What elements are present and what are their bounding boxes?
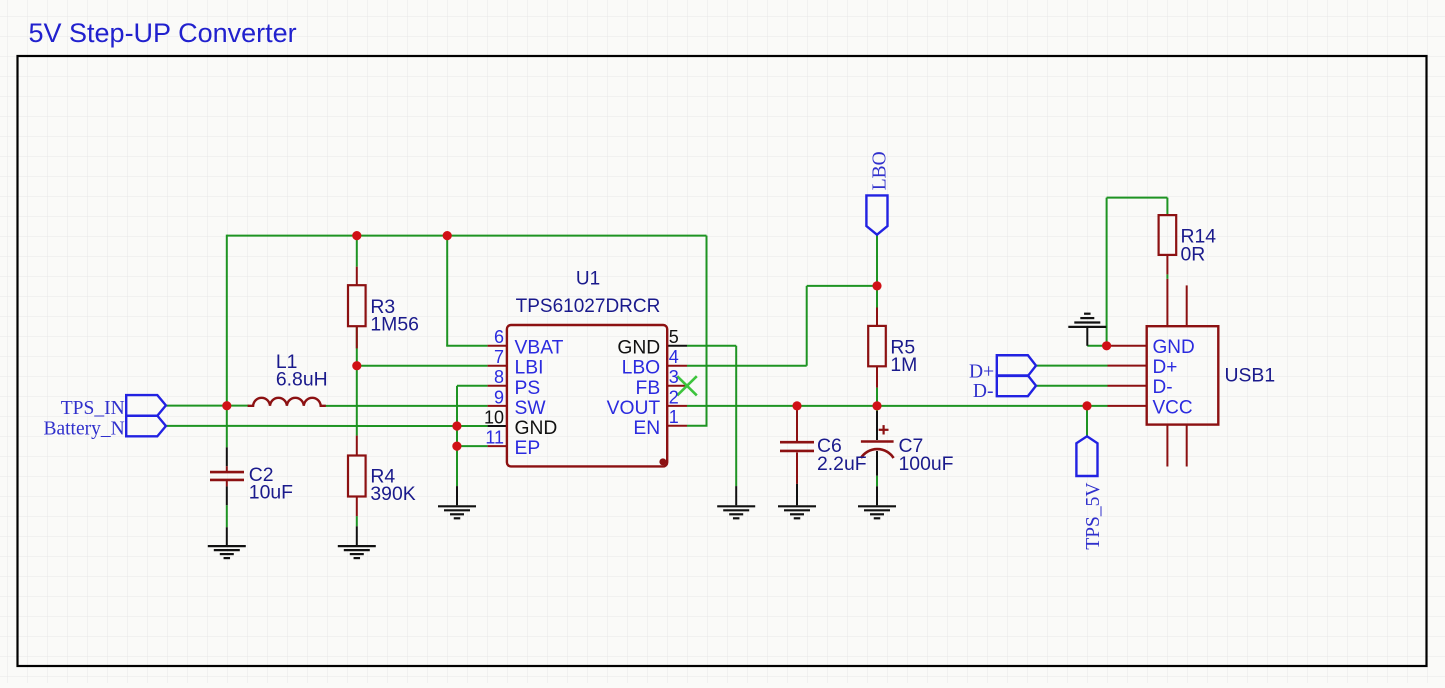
svg-text:11: 11 [485,428,504,448]
svg-text:2: 2 [669,387,679,407]
svg-text:LBI: LBI [515,358,544,379]
svg-text:Battery_N: Battery_N [43,419,124,440]
svg-text:PS: PS [515,378,541,399]
svg-text:5V Step-UP Converter: 5V Step-UP Converter [29,18,297,48]
svg-text:TPS_5V: TPS_5V [1083,483,1104,550]
svg-text:5: 5 [669,327,679,347]
svg-text:6.8uH: 6.8uH [276,369,328,391]
svg-text:100uF: 100uF [899,453,954,475]
svg-text:LBO: LBO [622,358,661,379]
svg-text:10uF: 10uF [249,482,293,504]
svg-text:TPS61027DRCR: TPS61027DRCR [516,296,661,317]
svg-text:SW: SW [515,398,547,419]
svg-text:EN: EN [633,418,660,439]
svg-text:8: 8 [494,367,504,387]
svg-text:390K: 390K [370,483,415,505]
svg-text:2.2uF: 2.2uF [817,453,867,475]
svg-text:VBAT: VBAT [515,338,564,359]
svg-text:1M: 1M [890,354,917,376]
svg-text:0R: 0R [1181,243,1206,265]
svg-text:7: 7 [494,347,504,367]
svg-text:GND: GND [515,418,558,439]
svg-text:FB: FB [636,378,661,399]
svg-text:1: 1 [669,407,679,427]
svg-text:D+: D+ [969,361,994,382]
svg-text:4: 4 [669,347,679,367]
svg-text:USB1: USB1 [1225,365,1276,387]
svg-text:10: 10 [484,407,504,427]
svg-text:D-: D- [973,381,994,402]
svg-text:EP: EP [515,438,541,459]
svg-text:LBO: LBO [869,151,890,190]
svg-text:GND: GND [617,338,660,359]
svg-text:U1: U1 [576,268,600,289]
svg-text:D-: D- [1153,377,1173,398]
svg-text:3: 3 [669,367,679,387]
svg-text:VCC: VCC [1153,397,1193,418]
svg-text:VOUT: VOUT [607,398,661,419]
svg-text:1M56: 1M56 [370,314,419,336]
svg-text:D+: D+ [1153,357,1178,378]
svg-text:TPS_IN: TPS_IN [61,398,125,419]
svg-text:GND: GND [1153,337,1195,358]
svg-text:6: 6 [494,327,504,347]
svg-text:9: 9 [494,387,504,407]
